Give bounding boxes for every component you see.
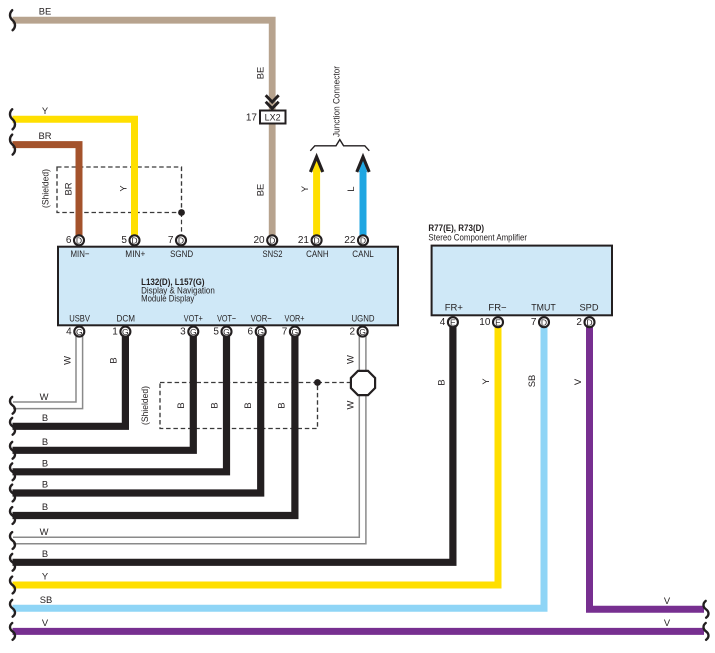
svg-text:W: W <box>62 356 73 365</box>
svg-text:21: 21 <box>298 235 310 246</box>
svg-text:G: G <box>190 327 197 337</box>
svg-text:LX2: LX2 <box>265 112 281 122</box>
svg-text:W: W <box>40 526 49 537</box>
wire BE (SNS2) <box>13 20 273 236</box>
svg-text:7: 7 <box>531 317 537 328</box>
svg-text:VOR−: VOR− <box>251 313 272 324</box>
left edge break Y fr- <box>10 577 15 594</box>
svg-text:B: B <box>42 501 48 512</box>
pin 7 TMUT connector <box>531 317 549 328</box>
svg-text:B: B <box>209 402 220 408</box>
svg-text:10: 10 <box>479 317 491 328</box>
right edge break V spd <box>703 601 708 618</box>
svg-text:V: V <box>42 617 49 628</box>
svg-text:B: B <box>42 479 48 490</box>
svg-text:E: E <box>450 317 456 327</box>
svg-text:G: G <box>223 327 230 337</box>
svg-text:7: 7 <box>282 327 288 338</box>
wire Y (MIN+) <box>13 119 135 236</box>
svg-text:Module Display: Module Display <box>141 294 194 305</box>
svg-text:(Shielded): (Shielded) <box>140 386 150 425</box>
svg-text:20: 20 <box>253 235 265 246</box>
wire BR (MIN-) <box>13 145 80 236</box>
svg-text:Y: Y <box>480 378 491 385</box>
pin 4 FR+ connector <box>440 317 458 328</box>
svg-text:VOT+: VOT+ <box>184 313 203 324</box>
svg-text:B: B <box>436 379 447 385</box>
wire B (VOT+) <box>13 328 194 450</box>
svg-text:B: B <box>42 412 48 423</box>
dashed shield link to noise filter <box>318 382 352 384</box>
CANL wire arrow tip <box>359 159 367 173</box>
svg-text:MIN−: MIN− <box>71 249 90 260</box>
svg-text:Y: Y <box>42 571 49 582</box>
left edge break W ugnd <box>10 532 15 549</box>
pin 3 VOT+ connector <box>180 327 198 338</box>
left edge break Y <box>10 109 15 129</box>
svg-text:G: G <box>257 327 264 337</box>
pin 7 VOR+ connector <box>282 327 300 338</box>
svg-text:Y: Y <box>299 185 310 192</box>
svg-text:5: 5 <box>213 327 219 338</box>
svg-text:BE: BE <box>255 184 266 197</box>
svg-text:Y: Y <box>42 105 49 116</box>
left edge break B vot- <box>10 463 15 480</box>
pin 5 MIN+ connector <box>121 235 139 246</box>
connector LX2 chevron 2 <box>266 102 279 109</box>
svg-text:SPD: SPD <box>579 303 598 314</box>
svg-text:B: B <box>242 402 253 408</box>
left edge break B vot+ <box>10 442 15 459</box>
svg-text:SGND: SGND <box>170 249 193 260</box>
pin 2 SPD connector <box>576 317 594 328</box>
wire B (DCM) <box>13 328 126 426</box>
svg-text:G: G <box>122 327 129 337</box>
svg-text:5: 5 <box>121 235 127 246</box>
svg-text:FR+: FR+ <box>445 303 464 314</box>
svg-text:B: B <box>42 457 48 468</box>
wire Y (FR-) <box>13 318 499 585</box>
svg-text:BE: BE <box>255 67 266 80</box>
svg-text:TMUT: TMUT <box>531 303 556 314</box>
junction dot shield 2 <box>314 379 321 386</box>
box R77/R73 Stereo Component Amplifier <box>432 246 612 316</box>
pin 4 USBV connector <box>66 327 84 338</box>
svg-text:W: W <box>345 400 356 409</box>
svg-text:BR: BR <box>63 182 74 195</box>
svg-text:D: D <box>131 235 137 245</box>
svg-text:USBV: USBV <box>69 313 90 324</box>
svg-text:D: D <box>313 235 319 245</box>
connector LX2 chevron 1 <box>266 95 279 102</box>
svg-text:SNS2: SNS2 <box>263 249 283 260</box>
svg-text:W: W <box>40 391 49 402</box>
dashed shield drain to SGND <box>181 213 183 237</box>
box L132/L157 Display & Navigation Module Display <box>58 247 398 326</box>
svg-text:D: D <box>541 317 547 327</box>
wire V (SPD) <box>590 318 705 609</box>
wire W (USBV) <box>13 328 79 405</box>
pin 22 CANL connector <box>344 235 368 246</box>
wire L (CANL) <box>360 170 367 236</box>
wire V (bottom) <box>13 628 705 635</box>
svg-text:W: W <box>345 355 356 364</box>
svg-text:V: V <box>664 595 671 606</box>
wire B (VOR+) <box>13 328 295 516</box>
CANH wire arrow tip <box>312 159 320 173</box>
left edge break B vor+ <box>10 507 15 524</box>
left edge break B vor- <box>10 485 15 502</box>
svg-text:4: 4 <box>440 317 446 328</box>
svg-text:BE: BE <box>39 6 52 17</box>
wire B (VOT-) <box>13 328 227 472</box>
svg-text:V: V <box>664 617 671 628</box>
svg-text:UGND: UGND <box>352 313 375 324</box>
svg-text:B: B <box>276 402 287 408</box>
pin 21 CANH connector <box>298 235 322 246</box>
svg-text:BR: BR <box>38 130 51 141</box>
svg-text:D: D <box>76 235 82 245</box>
svg-text:1: 1 <box>112 327 118 338</box>
svg-text:Junction Connector: Junction Connector <box>332 66 342 137</box>
svg-text:G: G <box>359 327 366 337</box>
svg-text:G: G <box>76 327 83 337</box>
svg-text:FR−: FR− <box>488 303 507 314</box>
wire B (FR+) <box>13 318 453 562</box>
pin 7 SGND connector <box>168 235 186 246</box>
pin 6 MIN- connector <box>66 235 84 246</box>
svg-text:V: V <box>572 378 583 385</box>
CANL arrowhead <box>357 157 369 172</box>
shielded box 1 (BR/Y wires) <box>57 167 182 213</box>
pin 20 SNS2 connector <box>253 235 277 246</box>
svg-text:CANL: CANL <box>352 249 374 260</box>
svg-text:G: G <box>292 327 299 337</box>
wire Y (CANH) <box>313 170 320 236</box>
svg-text:3: 3 <box>180 327 186 338</box>
left edge break SB tmut <box>10 600 15 617</box>
svg-text:SB: SB <box>40 594 53 605</box>
connector LX2 box <box>260 111 286 124</box>
svg-text:D: D <box>269 235 275 245</box>
svg-text:MIN+: MIN+ <box>125 249 145 260</box>
svg-text:B: B <box>42 436 48 447</box>
svg-text:B: B <box>42 548 48 559</box>
svg-text:7: 7 <box>168 235 174 246</box>
pin 6 VOR- connector <box>248 327 266 338</box>
svg-text:DCM: DCM <box>117 313 136 324</box>
wire B (VOR-) <box>13 328 261 493</box>
svg-text:6: 6 <box>248 327 254 338</box>
svg-text:SB: SB <box>526 375 537 388</box>
svg-text:2: 2 <box>576 317 582 328</box>
svg-text:Stereo Component Amplifier: Stereo Component Amplifier <box>428 233 527 244</box>
noise filter octagon <box>351 371 375 395</box>
pin 10 FR- connector <box>479 317 503 328</box>
svg-text:(Shielded): (Shielded) <box>41 169 51 208</box>
svg-text:E: E <box>495 317 501 327</box>
left edge break B fr+ <box>10 554 15 571</box>
left edge break B dcm <box>10 418 15 435</box>
svg-text:17: 17 <box>246 112 258 123</box>
left edge break BE <box>10 10 15 30</box>
svg-text:VOT−: VOT− <box>217 313 236 324</box>
wire SB (TMUT) <box>13 318 545 608</box>
left edge break V bottom <box>10 623 15 640</box>
svg-text:VOR+: VOR+ <box>285 313 305 324</box>
svg-text:L: L <box>345 186 356 191</box>
svg-text:22: 22 <box>344 235 356 246</box>
right edge break V bottom <box>703 623 708 640</box>
svg-text:D: D <box>586 317 592 327</box>
pin 5 VOT- connector <box>213 327 231 338</box>
pin 2 UGND connector <box>349 327 367 338</box>
svg-text:B: B <box>108 357 119 363</box>
svg-text:D: D <box>360 235 366 245</box>
svg-text:B: B <box>175 402 186 408</box>
shielded box 2 (VOT/VOR wires) <box>160 383 318 429</box>
left edge break W usbv <box>10 397 15 414</box>
svg-text:D: D <box>178 235 184 245</box>
left edge break BR <box>10 135 15 155</box>
CANH arrowhead <box>310 157 322 172</box>
svg-text:4: 4 <box>66 327 72 338</box>
pin 1 DCM connector <box>112 327 130 338</box>
svg-text:CANH: CANH <box>306 249 329 260</box>
svg-text:6: 6 <box>66 235 72 246</box>
svg-text:2: 2 <box>349 327 355 338</box>
svg-text:Y: Y <box>118 185 129 192</box>
wire W (UGND) <box>13 328 363 541</box>
junction connector brace <box>310 140 369 151</box>
junction dot shield 1 <box>178 209 185 216</box>
